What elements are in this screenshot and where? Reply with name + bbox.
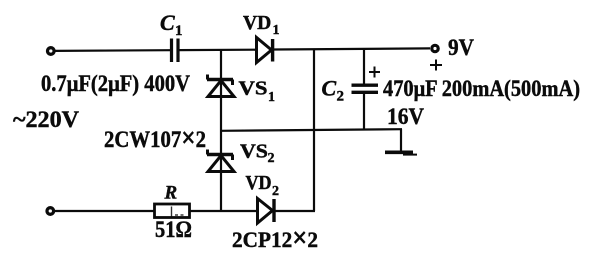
wire: C2 bottom lead bbox=[363, 93, 365, 130]
wire: VD2 to right vertical bbox=[275, 210, 315, 212]
svg-text:VS: VS bbox=[239, 79, 268, 100]
svg-text:0.7μF(2μF) 400V: 0.7μF(2μF) 400V bbox=[41, 71, 190, 96]
ground stub wire bbox=[400, 129, 402, 152]
label VS2 bbox=[240, 142, 275, 167]
svg-text:R: R bbox=[164, 183, 178, 204]
svg-text:1: 1 bbox=[273, 23, 280, 38]
label VD1 bbox=[243, 13, 280, 38]
diode VD1 bbox=[257, 38, 273, 63]
svg-text:2CW107×2: 2CW107×2 bbox=[104, 123, 206, 154]
capacitor C1 bbox=[172, 39, 179, 63]
svg-text:9V: 9V bbox=[448, 35, 474, 61]
wire: zener chain vertical (node top to bottom wire) bbox=[220, 50, 222, 211]
svg-text:C: C bbox=[160, 10, 175, 35]
wire: C1 to VD1 (through node at x=221) bbox=[179, 49, 257, 52]
label C1 bbox=[160, 10, 183, 39]
zener diode VS2 bbox=[207, 150, 234, 172]
svg-text:VS: VS bbox=[240, 142, 268, 163]
terminal: AC input lower bbox=[47, 208, 54, 215]
wire: lower input to R bbox=[54, 210, 154, 212]
wire: VD1 to output terminal bbox=[274, 48, 430, 49]
diode VD2 bbox=[258, 199, 275, 224]
svg-text:1: 1 bbox=[268, 90, 275, 105]
label C2 bbox=[322, 76, 345, 105]
svg-text:2: 2 bbox=[272, 184, 279, 199]
wire: right vertical (top wire to bottom wire at x=314) bbox=[313, 49, 315, 211]
svg-text:C: C bbox=[322, 76, 337, 101]
ground bbox=[385, 151, 413, 155]
svg-text:1: 1 bbox=[175, 23, 183, 39]
svg-text:~220V: ~220V bbox=[13, 107, 79, 132]
terminal: AC input upper bbox=[48, 48, 55, 55]
capacitor C2 (polarized) bbox=[352, 85, 379, 92]
svg-text:51Ω: 51Ω bbox=[155, 217, 192, 242]
polarity + at C2 bbox=[369, 67, 380, 78]
wire: C2 top lead bbox=[363, 49, 365, 86]
resistor R bbox=[155, 204, 190, 218]
svg-text:16V: 16V bbox=[387, 104, 424, 129]
svg-text:2: 2 bbox=[337, 89, 345, 105]
svg-text:VD: VD bbox=[246, 173, 272, 194]
polarity + at output bbox=[430, 60, 442, 71]
label VS1 bbox=[239, 79, 276, 106]
svg-text:470μF 200mA(500mA): 470μF 200mA(500mA) bbox=[383, 76, 580, 101]
wire: R to VD2 bbox=[190, 210, 257, 212]
zener diode VS1 bbox=[207, 75, 234, 97]
label VD2 bbox=[246, 173, 280, 199]
terminal: +9V output bbox=[432, 45, 438, 51]
svg-text:2: 2 bbox=[268, 151, 275, 166]
wire: mid horizontal (zener midpoint to ground stub) bbox=[221, 129, 402, 131]
wire: upper input to C1 bbox=[55, 49, 170, 52]
svg-text:2CP12×2: 2CP12×2 bbox=[232, 223, 318, 254]
svg-text:VD: VD bbox=[243, 13, 271, 34]
